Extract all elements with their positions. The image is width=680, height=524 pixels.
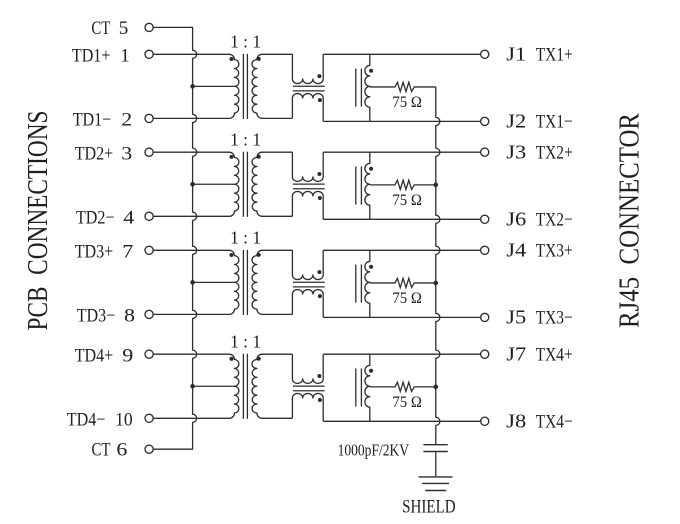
junction R4 to common net xyxy=(434,385,439,390)
terminal J8 TX4&#8722; xyxy=(481,417,489,425)
wire TD4- to T4 primary bottom xyxy=(153,417,230,419)
wire TD1+ to T1 primary top xyxy=(153,53,230,55)
common-mode choke L4 core xyxy=(293,385,325,387)
transformer T1 primary winding xyxy=(229,54,239,118)
junction center tap T1 on CT bus xyxy=(190,84,195,89)
wire choke L3 bottom to J5 terminal xyxy=(323,316,480,318)
terminal J5 TX3&#8722; xyxy=(481,313,489,321)
wire CT bus (pins 5-6 center-tap bus) with crossover hops xyxy=(153,27,197,449)
svg-text:TD2+: TD2+ xyxy=(75,144,114,165)
autotransformer A1 core xyxy=(355,69,357,107)
svg-text:75 Ω: 75 Ω xyxy=(392,290,422,307)
transformer T3 primary winding xyxy=(229,250,239,314)
polarity dot T4 primary xyxy=(230,357,234,361)
common-mode choke L3 core xyxy=(293,281,325,283)
transformer T2 core xyxy=(242,152,244,217)
terminal TD1+ pin 1 xyxy=(145,50,153,58)
svg-text:1: 1 xyxy=(120,46,130,67)
terminal TD4+ pin 9 xyxy=(145,350,153,358)
junction center tap T4 on CT bus xyxy=(190,384,195,389)
capacitor C1 1000pF/2KV plates xyxy=(423,444,447,446)
svg-text:75 Ω: 75 Ω xyxy=(392,94,422,111)
common-mode choke L2 core xyxy=(293,183,325,185)
polarity dot T4 secondary xyxy=(257,357,261,361)
polarity dot L4 top winding xyxy=(317,374,321,378)
resistor R4 75&#937; with tap wire xyxy=(370,382,436,391)
polarity dot T3 secondary xyxy=(257,253,261,257)
svg-text:1000pF/2KV: 1000pF/2KV xyxy=(338,441,410,460)
autotransformer A3 winding xyxy=(365,250,370,317)
terminal TD4- pin 10 xyxy=(145,414,153,422)
ground SHIELD symbol xyxy=(419,476,453,478)
polarity dot T2 secondary xyxy=(257,155,261,159)
svg-text:8: 8 xyxy=(124,306,135,327)
wire 75-ohm common net down to 1000pF capacitor, with crossover hops xyxy=(436,87,440,445)
transformer T1 secondary winding xyxy=(252,54,262,118)
common-mode choke L3 bottom winding xyxy=(292,290,323,318)
svg-text:1 : 1: 1 : 1 xyxy=(230,228,261,248)
transformer T3 core xyxy=(242,250,244,315)
wire T2 primary center tap xyxy=(193,183,235,185)
svg-text:1 : 1: 1 : 1 xyxy=(230,331,261,351)
wire choke L2 top to J3 terminal xyxy=(323,151,480,153)
wire TD3- to T3 primary bottom xyxy=(153,313,230,315)
polarity dot L2 top winding xyxy=(317,172,321,176)
common-mode choke L2 bottom winding xyxy=(292,191,323,219)
polarity dot T1 secondary xyxy=(257,57,261,61)
transformer T2 primary winding xyxy=(229,152,239,216)
wire T4 secondary bottom to choke L4 xyxy=(262,417,293,419)
svg-text:75 Ω: 75 Ω xyxy=(392,192,422,209)
svg-text:CT: CT xyxy=(92,440,111,461)
polarity dot A3 xyxy=(369,265,373,269)
autotransformer A3 core xyxy=(355,265,357,303)
terminal J3 TX2+ xyxy=(481,148,489,156)
polarity dot L3 top winding xyxy=(317,270,321,274)
svg-text:3: 3 xyxy=(121,144,132,165)
svg-text:TX4−: TX4− xyxy=(536,412,573,433)
svg-text:TD1−: TD1− xyxy=(73,110,112,131)
svg-text:TD4−: TD4− xyxy=(67,410,106,431)
wire TD2- to T2 primary bottom xyxy=(153,215,230,217)
terminal J1 TX1+ xyxy=(481,50,489,58)
resistor R1 75&#937; with tap wire xyxy=(370,82,436,91)
svg-text:TD3−: TD3− xyxy=(77,306,116,327)
svg-text:TD4+: TD4+ xyxy=(75,346,114,367)
transformer T2 secondary winding xyxy=(252,152,262,216)
svg-text:J3: J3 xyxy=(506,142,526,163)
wire T3 secondary top to choke L3 xyxy=(262,249,293,251)
terminal J7 TX4+ xyxy=(481,350,489,358)
polarity dot T3 primary xyxy=(230,253,234,257)
wire T1 secondary bottom to choke L1 xyxy=(262,117,293,119)
polarity dot T1 primary xyxy=(230,57,234,61)
wire choke L4 top to J7 terminal xyxy=(323,353,480,355)
wire TD2+ to T2 primary top xyxy=(153,151,230,153)
common-mode choke L1 core xyxy=(293,85,325,87)
common-mode choke L4 bottom winding xyxy=(292,393,323,421)
svg-text:RJ45 CONNECTOR: RJ45 CONNECTOR xyxy=(615,113,646,328)
wire choke L3 top to J4 terminal xyxy=(323,249,480,251)
wire choke L1 top to J1 terminal xyxy=(323,53,480,55)
svg-text:1 : 1: 1 : 1 xyxy=(230,129,261,149)
svg-text:6: 6 xyxy=(116,440,127,461)
svg-text:TX4+: TX4+ xyxy=(536,344,573,365)
autotransformer A2 winding xyxy=(365,152,370,219)
common-mode choke L4 top winding xyxy=(292,354,323,383)
autotransformer A4 core xyxy=(355,368,357,406)
transformer T1 core xyxy=(242,54,244,119)
svg-text:1 : 1: 1 : 1 xyxy=(230,32,261,52)
svg-text:TD2−: TD2− xyxy=(76,208,115,229)
svg-text:TX3+: TX3+ xyxy=(536,241,573,262)
svg-text:J1: J1 xyxy=(506,45,526,66)
svg-text:J7: J7 xyxy=(506,344,526,365)
svg-text:J8: J8 xyxy=(506,412,526,433)
wire T2 secondary top to choke L2 xyxy=(262,151,293,153)
transformer T4 primary winding xyxy=(229,354,239,418)
transformer T3 secondary winding xyxy=(252,250,262,314)
svg-text:TD3+: TD3+ xyxy=(75,242,114,263)
wire T4 secondary top to choke L4 xyxy=(262,353,293,355)
svg-text:TX2+: TX2+ xyxy=(536,142,573,163)
svg-text:7: 7 xyxy=(122,242,133,263)
autotransformer A1 winding xyxy=(365,54,370,121)
junction R3 to common net xyxy=(434,281,439,286)
svg-text:J4: J4 xyxy=(506,241,526,262)
transformer T4 secondary winding xyxy=(252,354,262,418)
svg-text:J2: J2 xyxy=(506,112,526,133)
svg-text:CT: CT xyxy=(91,18,110,39)
polarity dot A4 xyxy=(369,369,373,373)
wire T1 secondary top to choke L1 xyxy=(262,53,293,55)
polarity dot T2 primary xyxy=(230,155,234,159)
wire T3 secondary bottom to choke L3 xyxy=(262,313,293,315)
svg-text:TD1+: TD1+ xyxy=(72,46,111,67)
svg-text:SHIELD: SHIELD xyxy=(402,498,456,518)
junction R2 to common net xyxy=(434,183,439,188)
polarity dot L1 bottom winding xyxy=(318,98,322,102)
terminal TD2+ pin 3 xyxy=(145,148,153,156)
wire T3 primary center tap xyxy=(193,281,235,283)
common-mode choke L2 top winding xyxy=(292,152,323,181)
terminal TD2- pin 4 xyxy=(145,212,153,220)
terminal CT pin 6 xyxy=(145,445,153,453)
junction center tap T2 on CT bus xyxy=(190,182,195,187)
svg-text:2: 2 xyxy=(121,110,132,131)
svg-text:TX2−: TX2− xyxy=(536,210,573,231)
wire choke L2 bottom to J6 terminal xyxy=(323,218,480,220)
terminal TD3- pin 8 xyxy=(145,310,153,318)
autotransformer A2 core xyxy=(355,166,357,204)
wire choke L4 bottom to J8 terminal xyxy=(323,420,480,422)
svg-text:PCB CONNECTIONS: PCB CONNECTIONS xyxy=(23,111,54,331)
common-mode choke L3 top winding xyxy=(292,250,323,279)
wire TD1- to T1 primary bottom xyxy=(153,117,230,119)
terminal TD1- pin 2 xyxy=(145,114,153,122)
svg-text:10: 10 xyxy=(115,410,133,431)
polarity dot L2 bottom winding xyxy=(318,196,322,200)
svg-text:J6: J6 xyxy=(506,210,526,231)
terminal CT pin 5 xyxy=(145,23,153,31)
wire T1 primary center tap xyxy=(193,85,235,87)
svg-text:4: 4 xyxy=(123,208,135,229)
polarity dot L4 bottom winding xyxy=(318,398,322,402)
terminal J6 TX2&#8722; xyxy=(481,215,489,223)
svg-text:TX3−: TX3− xyxy=(536,308,573,329)
svg-text:TX1−: TX1− xyxy=(536,112,573,133)
junction center tap T3 on CT bus xyxy=(190,280,195,285)
terminal J2 TX1&#8722; xyxy=(481,117,489,125)
transformer T4 core xyxy=(242,354,244,419)
common-mode choke L1 top winding xyxy=(292,54,323,83)
wire capacitor to shield ground xyxy=(435,452,437,476)
wire T2 secondary bottom to choke L2 xyxy=(262,215,293,217)
resistor R2 75&#937; with tap wire xyxy=(370,180,436,189)
svg-text:5: 5 xyxy=(119,18,129,39)
terminal TD3+ pin 7 xyxy=(145,246,153,254)
svg-text:75 Ω: 75 Ω xyxy=(392,394,422,411)
svg-text:TX1+: TX1+ xyxy=(536,45,573,66)
wire TD4+ to T4 primary top xyxy=(153,353,230,355)
terminal J4 TX3+ xyxy=(481,246,489,254)
autotransformer A4 winding xyxy=(365,354,370,421)
wire choke L1 bottom to J2 terminal xyxy=(323,120,480,122)
resistor R3 75&#937; with tap wire xyxy=(370,278,436,287)
svg-text:J5: J5 xyxy=(506,308,526,329)
wire T4 primary center tap xyxy=(193,385,235,387)
polarity dot A1 xyxy=(369,69,373,73)
svg-text:9: 9 xyxy=(122,346,133,367)
common-mode choke L1 bottom winding xyxy=(292,94,323,122)
polarity dot A2 xyxy=(369,167,373,171)
polarity dot L3 bottom winding xyxy=(318,294,322,298)
polarity dot L1 top winding xyxy=(317,74,321,78)
wire TD3+ to T3 primary top xyxy=(153,249,230,251)
